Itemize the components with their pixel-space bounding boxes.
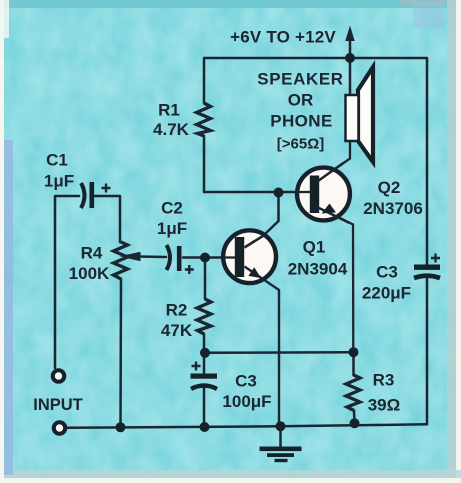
svg-text:C2: C2 (161, 199, 183, 218)
svg-text:R3: R3 (373, 371, 395, 390)
svg-text:PHONE: PHONE (270, 112, 332, 131)
svg-text:SPEAKER: SPEAKER (257, 70, 343, 89)
svg-text:1μF: 1μF (157, 219, 187, 238)
svg-text:R4: R4 (81, 244, 103, 263)
svg-text:C1: C1 (46, 151, 68, 170)
svg-text:100K: 100K (69, 264, 110, 283)
svg-text:C3: C3 (376, 263, 398, 282)
svg-text:47K: 47K (161, 321, 193, 340)
svg-text:39Ω: 39Ω (368, 396, 401, 415)
svg-text:2N3904: 2N3904 (288, 260, 348, 279)
svg-text:+6V TO +12V: +6V TO +12V (230, 28, 336, 47)
svg-text:R1: R1 (158, 101, 180, 120)
svg-text:OR: OR (288, 91, 314, 110)
svg-text:C3: C3 (235, 372, 257, 391)
svg-text:1μF: 1μF (44, 171, 74, 190)
svg-text:INPUT: INPUT (33, 396, 83, 414)
svg-text:R2: R2 (166, 301, 188, 320)
svg-text:220μF: 220μF (362, 284, 411, 303)
svg-text:100μF: 100μF (222, 392, 271, 411)
svg-text:2N3706: 2N3706 (363, 199, 423, 218)
svg-text:Q2: Q2 (378, 178, 401, 197)
svg-text:Q1: Q1 (303, 238, 326, 257)
svg-text:4.7K: 4.7K (153, 120, 190, 139)
svg-text:[>65Ω]: [>65Ω] (277, 136, 324, 153)
